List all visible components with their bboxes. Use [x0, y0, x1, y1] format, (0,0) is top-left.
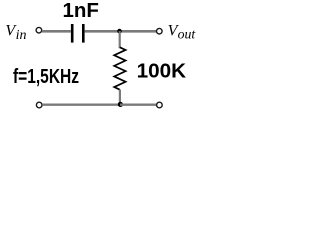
svg-text:1nF: 1nF: [63, 0, 99, 22]
node B junction dot bottom: [118, 102, 123, 107]
node Vin terminal: [36, 27, 42, 33]
wire Vin terminal to capacitor: [42, 30, 71, 33]
resistor R1 zigzag: [114, 47, 125, 89]
node bottom-right terminal: [157, 102, 163, 108]
wire capacitor to Vout terminal through node A: [85, 30, 157, 33]
capacitor C1 plate left: [71, 24, 74, 43]
node A junction dot top: [117, 29, 122, 34]
svg-text:Vout: Vout: [168, 22, 197, 41]
wire node A down to resistor: [119, 31, 121, 48]
capacitor C1 plate right: [82, 24, 85, 43]
wire bottom-left terminal to node B: [42, 103, 120, 105]
svg-text:Vin: Vin: [5, 22, 26, 43]
wire resistor to node B: [119, 90, 121, 105]
wire node B to bottom-right terminal: [120, 103, 156, 105]
svg-text:100K: 100K: [137, 59, 187, 82]
node bottom-left terminal: [36, 102, 42, 108]
svg-text:f=1,5KHz: f=1,5KHz: [13, 66, 79, 88]
node Vout terminal: [157, 28, 163, 34]
